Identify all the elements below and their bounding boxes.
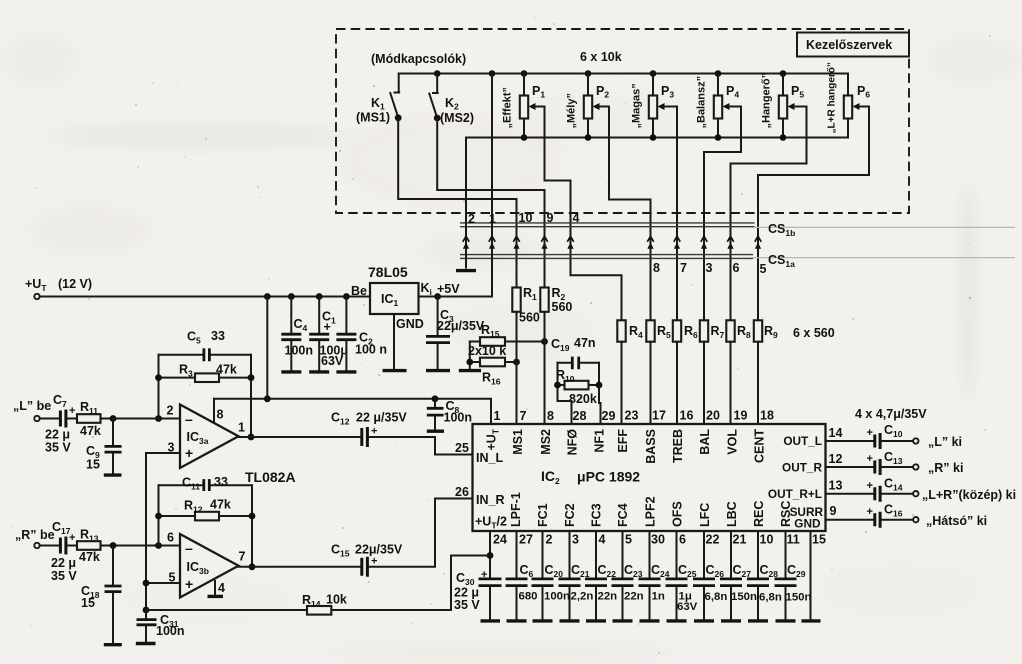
svg-text:μPC 1892: μPC 1892 — [577, 469, 640, 485]
svg-text:(12 V): (12 V) — [58, 277, 92, 291]
ground (C8) — [427, 430, 444, 433]
svg-text:LBC: LBC — [725, 501, 739, 527]
svg-text:K2: K2 — [445, 96, 459, 112]
capacitor C4 — [281, 293, 313, 370]
svg-text:GND: GND — [396, 317, 424, 331]
node +UT supply terminal — [25, 277, 92, 299]
svg-text:CENT: CENT — [753, 429, 767, 463]
ground (C20) — [533, 619, 553, 622]
svg-text:2x10 k: 2x10 k — [468, 344, 506, 358]
svg-text:2: 2 — [167, 404, 174, 418]
svg-text:C4: C4 — [294, 317, 308, 333]
svg-text:IN_R: IN_R — [476, 493, 504, 507]
capacitor C7 — [45, 393, 77, 455]
svg-text:3: 3 — [706, 261, 713, 275]
wire: top +5V rail inside control box — [399, 73, 848, 75]
svg-text:OUT_R: OUT_R — [782, 461, 822, 475]
connector bus CS1b — [460, 222, 1015, 238]
svg-text:C14: C14 — [884, 477, 903, 493]
svg-text:„Balansz”: „Balansz” — [696, 76, 708, 129]
svg-text:+: + — [69, 532, 75, 544]
wire: connector pin 1 (+5V riser to top rail) — [438, 70, 496, 296]
svg-text:„Magas”: „Magas” — [631, 83, 643, 128]
svg-text:5: 5 — [625, 533, 632, 547]
wire: feedback left leg IC3b — [155, 485, 162, 545]
svg-text:1: 1 — [238, 421, 245, 435]
wire: feedback right leg IC3a to output — [248, 355, 255, 441]
ground (C23) — [613, 619, 633, 622]
bottom pin number labels 24 27 2 3 4 5 30 6 22 21 10 11 — [493, 533, 800, 547]
capacitor C15 — [331, 543, 403, 577]
wire: bottom common rail of pots — [466, 137, 848, 139]
wire: feedback right leg IC3b to output — [249, 485, 256, 570]
svg-text:4: 4 — [599, 533, 606, 547]
resistor R6 — [673, 320, 681, 341]
svg-text:R4: R4 — [629, 324, 643, 340]
svg-text:C26: C26 — [706, 563, 725, 579]
op-amp IC3a — [167, 404, 246, 469]
junction: rail to op-amp supply drop — [264, 293, 271, 300]
capacitor C30 — [454, 569, 502, 619]
svg-text:C6: C6 — [520, 563, 534, 579]
svg-text:27: 27 — [519, 533, 533, 547]
node L output terminal — [913, 435, 962, 449]
svg-text:C7: C7 — [53, 393, 67, 409]
svg-text:1: 1 — [489, 212, 496, 226]
svg-text:R16: R16 — [482, 371, 501, 387]
wire: R5 to IC2 pin 17 (BASS) — [650, 342, 652, 424]
resistor R1 — [512, 286, 540, 325]
svg-text:„Effekt”: „Effekt” — [502, 87, 514, 129]
capacitor C23 — [612, 531, 644, 619]
svg-text:MS1: MS1 — [511, 429, 525, 455]
svg-text:680: 680 — [519, 591, 538, 603]
svg-text:100 n: 100 n — [355, 343, 387, 357]
pin name OUT_R / pin 12 — [782, 452, 842, 475]
ground (R15/R16) — [459, 369, 481, 372]
node rear output terminal — [913, 514, 987, 528]
svg-text:33: 33 — [211, 329, 225, 343]
svg-text:15: 15 — [812, 533, 826, 547]
svg-text:NF1: NF1 — [593, 429, 607, 453]
pin name IN_L / pin 25 — [455, 441, 503, 465]
svg-text:C16: C16 — [884, 503, 903, 519]
resistor R5 — [646, 320, 654, 341]
svg-text:P1: P1 — [532, 84, 545, 100]
ground (connector pin 2) — [456, 269, 476, 272]
svg-text:+: + — [867, 480, 873, 492]
svg-text:1n: 1n — [652, 591, 665, 603]
svg-text:22n: 22n — [624, 591, 644, 603]
svg-text:63V: 63V — [677, 601, 698, 613]
svg-text:8: 8 — [653, 261, 660, 275]
capacitor C6 — [506, 531, 538, 619]
svg-text:18: 18 — [760, 409, 774, 423]
capacitor C20 — [532, 531, 571, 619]
svg-text:5: 5 — [760, 262, 767, 276]
ground (pin 15) — [802, 619, 821, 622]
svg-text:R12: R12 — [184, 499, 203, 515]
ground (C22) — [586, 619, 606, 622]
svg-text:21: 21 — [733, 533, 747, 547]
svg-text:C15: C15 — [331, 543, 350, 559]
wire: P1 wiper to connector pin 4 — [535, 107, 622, 321]
regulator IC1 78L05 — [351, 264, 460, 331]
capacitor C19 — [551, 336, 599, 369]
pin name OUT_R+L / pin 13 — [768, 479, 843, 502]
wire: P5 wiper to connector pin 6 — [731, 107, 807, 321]
svg-text:R14: R14 — [302, 593, 321, 609]
wire: R14 to IC2 pin 24 node — [451, 556, 490, 611]
svg-text:100n: 100n — [444, 411, 473, 425]
resistor R8 — [726, 320, 734, 341]
svg-text:R7: R7 — [711, 324, 725, 340]
svg-text:+: + — [371, 556, 377, 568]
ground (C25) — [667, 619, 687, 622]
svg-text:C25: C25 — [678, 563, 697, 579]
svg-text:+: + — [69, 405, 75, 417]
capacitor C26 — [693, 531, 727, 619]
svg-text:FC4: FC4 — [616, 503, 630, 527]
svg-text:P3: P3 — [661, 84, 674, 100]
svg-text:C20: C20 — [545, 563, 564, 579]
pin name GND / pin 15 — [794, 517, 826, 547]
connector bus CS1a — [460, 253, 1015, 269]
svg-text:13: 13 — [829, 479, 843, 493]
wire: feedback left leg IC3a — [155, 355, 162, 419]
capacitor C29 — [775, 531, 812, 619]
svg-text:P4: P4 — [726, 84, 739, 100]
svg-text:C17: C17 — [52, 520, 71, 536]
svg-text:+UT/2: +UT/2 — [475, 515, 507, 531]
svg-text:8: 8 — [547, 409, 554, 423]
svg-text:„Hátsó” ki: „Hátsó” ki — [926, 514, 987, 528]
svg-text:C5: C5 — [187, 330, 201, 346]
Kezelőszervek label box — [797, 33, 909, 57]
svg-text:4: 4 — [218, 581, 225, 595]
wire: R6 to IC2 pin 16 (TREB) — [676, 342, 678, 424]
capacitor C5 — [159, 329, 252, 361]
svg-text:47k: 47k — [80, 424, 101, 438]
node L+R (center) output terminal — [913, 488, 1016, 502]
wire: P4 wiper to connector pin 3 — [704, 107, 741, 321]
potentiometer P3 (Magas) — [631, 70, 675, 141]
connector contact arrows (pins 2,1,10,9,4,8,7,3,6,5) — [463, 236, 761, 249]
wire: R11 to IC3a inverting input (pin 2) — [101, 415, 181, 422]
svg-text:CS1a: CS1a — [768, 253, 795, 269]
resistor R2 — [540, 286, 572, 314]
ground (C28) — [748, 619, 768, 622]
svg-text:CS1b: CS1b — [768, 222, 795, 238]
resistor R10 — [554, 363, 602, 406]
capacitor C14 — [826, 477, 914, 502]
svg-text:2: 2 — [468, 212, 475, 226]
svg-text:10: 10 — [760, 533, 774, 547]
svg-text:22 μ/35V: 22 μ/35V — [356, 411, 407, 425]
svg-text:22μ/35V: 22μ/35V — [355, 543, 403, 557]
control box dashed border — [336, 29, 909, 213]
svg-text:6 x 560: 6 x 560 — [793, 326, 835, 340]
node R output terminal — [913, 461, 963, 475]
svg-text:TL082A: TL082A — [245, 469, 296, 485]
svg-text:6: 6 — [733, 261, 740, 275]
svg-text:22 μ: 22 μ — [45, 428, 70, 442]
svg-text:R13: R13 — [80, 528, 99, 544]
svg-text:VOL: VOL — [726, 429, 740, 455]
svg-text:28: 28 — [573, 409, 587, 423]
svg-text:14: 14 — [829, 426, 843, 440]
wire: R9 to IC2 pin 18 (CENT) — [757, 342, 759, 424]
ground (C9) — [104, 473, 122, 476]
svg-text:47n: 47n — [574, 336, 596, 350]
capacitor C12 — [331, 411, 407, 448]
wire: +5V from IC1 to connector riser — [419, 296, 493, 298]
svg-text:REC: REC — [752, 501, 766, 527]
wire: K2 to connector pin 9 — [437, 118, 544, 288]
svg-text:K1: K1 — [371, 96, 385, 112]
svg-text:150n: 150n — [731, 591, 757, 603]
capacitor C21 — [559, 531, 594, 619]
wire: IC3a output to C12 — [239, 436, 361, 438]
svg-text:–: – — [185, 411, 193, 427]
svg-text:+: + — [867, 506, 873, 518]
svg-text:R9: R9 — [764, 324, 778, 340]
wire: IC2 pin 15 to ground — [810, 531, 812, 619]
svg-text:6 x 10k: 6 x 10k — [580, 50, 622, 64]
resistor R3 — [159, 363, 252, 383]
capacitor C28 — [747, 531, 782, 619]
capacitor C1 — [309, 293, 348, 370]
capacitor C9 — [86, 419, 122, 474]
capacitor C25 — [666, 531, 698, 619]
svg-text:9: 9 — [547, 211, 554, 225]
svg-text:BASS: BASS — [644, 429, 658, 464]
svg-text:„L+R hangerő”: „L+R hangerő” — [827, 62, 838, 133]
svg-text:C12: C12 — [331, 411, 350, 427]
pin name OUT_L / pin 14 — [783, 426, 842, 448]
wire: IC1 GND pin — [393, 314, 395, 369]
svg-text:4: 4 — [573, 211, 580, 225]
capacitor C10 — [826, 423, 914, 449]
svg-text:(MS2): (MS2) — [440, 111, 474, 125]
capacitor C18 — [81, 546, 122, 643]
svg-text:+5V: +5V — [437, 282, 460, 296]
svg-text:„Hangerő”: „Hangerő” — [761, 73, 773, 129]
svg-text:23: 23 — [625, 409, 639, 423]
svg-text:100n: 100n — [544, 591, 570, 603]
svg-text:22 μ: 22 μ — [51, 556, 76, 570]
svg-text:6,8n: 6,8n — [759, 592, 782, 604]
svg-text:R1: R1 — [523, 286, 537, 302]
ground (C24) — [640, 619, 660, 622]
wire: R1 to IC2 pin 7 (MS1) — [516, 312, 518, 424]
node L input terminal — [13, 399, 59, 421]
ground (C6) — [507, 619, 527, 622]
svg-text:LPF2: LPF2 — [644, 496, 658, 527]
ground (C3) — [426, 369, 450, 372]
svg-text:BAL: BAL — [698, 429, 712, 455]
svg-text:10: 10 — [519, 211, 533, 225]
svg-text:22μ/35V: 22μ/35V — [437, 319, 485, 333]
ground (IC3b pin 4) — [208, 595, 224, 598]
svg-text:19: 19 — [734, 409, 748, 423]
svg-text:R8: R8 — [737, 324, 751, 340]
svg-text:10k: 10k — [326, 593, 347, 607]
wire: R4 to IC2 pin 23 (EFF) — [621, 342, 623, 424]
svg-text:2,2n: 2,2n — [571, 591, 594, 603]
resistor R12 — [159, 498, 253, 521]
wire: R8 to IC2 pin 19 (VOL) — [730, 342, 732, 424]
wire: IC3b output to C15 — [239, 566, 361, 568]
svg-text:560: 560 — [552, 300, 573, 314]
svg-text:+: + — [481, 569, 487, 581]
svg-text:22n: 22n — [598, 591, 618, 603]
capacitor C22 — [585, 531, 617, 619]
svg-text:35 V: 35 V — [51, 569, 77, 583]
capacitor C11 — [159, 475, 253, 492]
ground (C1) — [309, 370, 329, 373]
svg-text:TREB: TREB — [671, 429, 685, 463]
svg-text:4 x 4,7μ/35V: 4 x 4,7μ/35V — [855, 407, 927, 421]
capacitor C2 — [336, 293, 387, 370]
resistor R13 — [77, 528, 101, 565]
svg-text:EFF: EFF — [616, 429, 630, 453]
op-amp IC3b — [167, 531, 246, 598]
svg-text:C27: C27 — [733, 563, 752, 579]
svg-text:OUT_L: OUT_L — [783, 434, 822, 448]
svg-text:„R” ki: „R” ki — [928, 461, 963, 475]
svg-text:7: 7 — [680, 261, 687, 275]
svg-text:6,8n: 6,8n — [705, 591, 728, 603]
svg-text:P5: P5 — [791, 84, 804, 100]
svg-text:15: 15 — [81, 596, 95, 610]
svg-text:150n: 150n — [786, 592, 812, 604]
svg-text:Kezelőszervek: Kezelőszervek — [806, 38, 892, 52]
ground (C4) — [281, 370, 301, 373]
potentiometer P1 (Effekt) — [502, 70, 546, 141]
svg-text:MS2: MS2 — [539, 429, 553, 455]
pin name SURR / pin 9 — [790, 504, 837, 519]
svg-text:C28: C28 — [760, 563, 779, 579]
ground (C21) — [560, 619, 580, 622]
svg-text:„L+R”(közép) ki: „L+R”(közép) ki — [922, 488, 1016, 502]
svg-text:35 V: 35 V — [45, 441, 71, 455]
svg-text:1: 1 — [494, 409, 501, 423]
ground (C26) — [694, 619, 714, 622]
svg-text:35 V: 35 V — [454, 598, 480, 612]
ground (C2) — [336, 370, 356, 373]
svg-text:FC3: FC3 — [590, 503, 604, 527]
wire: P3 wiper to connector pin 7 — [664, 107, 678, 321]
svg-text:12: 12 — [829, 452, 843, 466]
svg-text:Be: Be — [351, 284, 367, 298]
svg-text:2: 2 — [546, 533, 553, 547]
resistor R15 — [470, 323, 548, 346]
ground (C30) — [481, 619, 501, 622]
wire: R2 to IC2 pin 8 (MS2) — [544, 312, 546, 424]
svg-text:C13: C13 — [884, 450, 903, 466]
wire: R7 to IC2 pin 20 (BAL) — [703, 342, 705, 424]
svg-text:11: 11 — [787, 533, 800, 547]
svg-text:NFØ: NFØ — [566, 429, 580, 456]
svg-text:6: 6 — [679, 533, 686, 547]
svg-text:+: + — [371, 426, 377, 438]
wire: R15/R16 common to ground — [466, 342, 473, 369]
svg-text:GND: GND — [794, 517, 821, 531]
resistor R16 — [470, 358, 520, 387]
svg-text:7: 7 — [520, 409, 527, 423]
svg-text:„Mély”: „Mély” — [566, 93, 578, 128]
resistor R7 — [700, 320, 708, 341]
svg-text:P2: P2 — [596, 84, 609, 100]
svg-text:C29: C29 — [787, 563, 806, 579]
svg-text:R10: R10 — [556, 368, 575, 384]
svg-text:+: + — [185, 576, 193, 592]
svg-text:7: 7 — [239, 550, 246, 564]
capacitor C24 — [639, 531, 670, 619]
svg-text:25: 25 — [455, 441, 469, 455]
wire: R13 to IC3b inverting input (pin 6) — [101, 542, 181, 549]
wire: P2 wiper to connector pin 8 — [599, 107, 651, 321]
wire: RC network to IC2 pin 29 (NF1) — [599, 403, 601, 424]
svg-text:IN_L: IN_L — [476, 451, 503, 465]
svg-text:OUT_R+L: OUT_R+L — [768, 487, 822, 501]
svg-text:„L” ki: „L” ki — [928, 435, 962, 449]
capacitor C17 — [51, 520, 77, 583]
svg-text:6: 6 — [167, 531, 174, 545]
ground (C29) — [776, 619, 796, 622]
svg-text:47k: 47k — [210, 498, 231, 512]
svg-text:78L05: 78L05 — [368, 264, 408, 280]
svg-text:C10: C10 — [884, 423, 903, 439]
svg-text:30: 30 — [651, 533, 665, 547]
resistor R11 — [77, 400, 101, 438]
potentiometer P2 (Mély) — [566, 70, 610, 141]
switch K2 — [429, 70, 474, 125]
potentiometer P4 (Balansz) — [696, 70, 740, 141]
svg-text:+: + — [867, 427, 873, 439]
svg-text:560: 560 — [519, 311, 540, 325]
wire: K1 to connector pin 10 — [398, 118, 516, 288]
wire: +12V rail to 78L05 input — [40, 296, 370, 298]
ground (IC1) — [383, 369, 407, 372]
svg-text:100n: 100n — [156, 624, 185, 638]
resistor R14 — [146, 593, 451, 615]
wire: IC3a pin 8 supply stub — [213, 399, 215, 422]
wire: connector pin 2 (pot common to ground) — [466, 138, 475, 268]
svg-text:LPF-1: LPF-1 — [509, 492, 523, 527]
ground (C31) — [136, 642, 156, 645]
wire: C15 to IC2 pin 26 (IN_R) — [369, 499, 473, 567]
node R input terminal — [15, 528, 59, 548]
wire: RC network to IC2 pin 28 (NFØ) — [558, 401, 572, 424]
wire: bias node (pins 3 and 5) — [143, 453, 180, 613]
svg-text:R3: R3 — [179, 363, 193, 379]
svg-text:R5: R5 — [657, 324, 671, 340]
svg-text:OFS: OFS — [671, 501, 685, 527]
ground (C27) — [721, 619, 741, 622]
svg-text:26: 26 — [455, 485, 469, 499]
svg-text:+UT: +UT — [25, 277, 47, 293]
wire: P6 wiper to connector pin 5 — [758, 107, 869, 321]
svg-text:8: 8 — [217, 408, 224, 422]
capacitor C3 — [426, 297, 485, 369]
potentiometer P5 (Hangerő) — [761, 70, 805, 141]
svg-text:16: 16 — [680, 409, 694, 423]
svg-text:C24: C24 — [651, 563, 670, 579]
svg-text:P6: P6 — [857, 84, 870, 100]
svg-text:(MS1): (MS1) — [356, 111, 390, 125]
